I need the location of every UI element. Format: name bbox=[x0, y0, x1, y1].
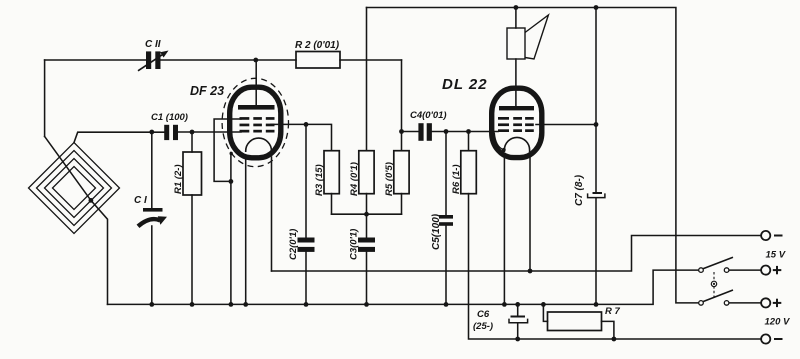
svg-text:15 V: 15 V bbox=[766, 249, 786, 260]
capacitor C4 bbox=[418, 123, 432, 141]
tube DL22 envelope bbox=[492, 88, 542, 157]
svg-text:R5 (0'5): R5 (0'5) bbox=[384, 162, 395, 196]
wire R1 top lead bbox=[191, 132, 193, 152]
terminal 120V plus bbox=[761, 298, 770, 307]
wire speaker to DL22 anode bbox=[515, 59, 517, 106]
wire DF23 filament right leg bbox=[271, 157, 273, 271]
wire DF23 anode lead bbox=[255, 60, 257, 105]
tube DL22 grid3-filament link bbox=[494, 133, 504, 150]
svg-text:R 2 (0'01): R 2 (0'01) bbox=[295, 40, 340, 51]
label minus 120V bbox=[774, 338, 783, 340]
node screen C2 bbox=[304, 122, 309, 127]
wire DL22 filament right leg bbox=[529, 156, 531, 271]
label plus 120V bbox=[773, 299, 782, 307]
wire DF23 coating ground bbox=[230, 153, 232, 305]
wire C7 bottom bbox=[595, 198, 597, 304]
switch S1 bbox=[699, 257, 733, 272]
tube DF23 filament bbox=[246, 138, 272, 152]
node rail C7 bbox=[594, 302, 599, 307]
tube DF23 envelope bbox=[230, 87, 281, 158]
node DL22 filament heater bbox=[528, 269, 533, 274]
loop antenna L1 bbox=[29, 143, 120, 234]
resistor R7 bbox=[548, 312, 602, 331]
tube DL22 anode bar bbox=[499, 106, 534, 110]
terminal 15V minus bbox=[761, 231, 770, 240]
node C4 R5 bbox=[399, 129, 404, 134]
wire antenna inner tap diagonal bbox=[45, 136, 108, 304]
wire DF23 filament left leg bbox=[245, 157, 247, 304]
switch mechanical link bbox=[711, 272, 716, 300]
node decoupling C3 bbox=[364, 212, 369, 217]
capacitor C6 (electrolytic) bbox=[509, 316, 528, 323]
svg-text:DL 22: DL 22 bbox=[442, 76, 488, 93]
svg-text:C3(0'1): C3(0'1) bbox=[349, 229, 360, 260]
node rail R1 bbox=[190, 302, 195, 307]
svg-text:R 7: R 7 bbox=[605, 306, 621, 317]
terminal 15V plus bbox=[761, 266, 770, 275]
node rail C5 bbox=[444, 302, 449, 307]
tube DF23 anode bar bbox=[238, 105, 275, 110]
resistor R6 bbox=[461, 151, 477, 194]
node antenna inner tap bbox=[89, 198, 94, 203]
node rail CI bbox=[149, 302, 154, 307]
capacitor C5 bbox=[439, 215, 453, 226]
wire R1 bottom lead bbox=[191, 195, 193, 304]
node rail DF23 filament bbox=[243, 302, 248, 307]
terminal 120V minus bbox=[761, 334, 770, 343]
svg-text:C II: C II bbox=[145, 39, 161, 50]
resistor R4 bbox=[359, 151, 374, 194]
wire DL22 filament left leg bbox=[503, 156, 505, 304]
node B+ screen branch bbox=[594, 5, 599, 10]
node rail DL22 filament bbox=[502, 302, 507, 307]
wire DL22 screen to B+ bbox=[536, 124, 596, 126]
tube DF23 grid dashes bbox=[240, 117, 275, 132]
wire CI branch bottom bbox=[151, 226, 153, 304]
wire 15V plus to terminal bbox=[729, 269, 761, 271]
wire ground rail bbox=[108, 270, 699, 304]
wire DF23 grid1 loop bbox=[214, 119, 241, 181]
wire speaker top lead bbox=[515, 8, 517, 29]
wire B+ down through R4 position bbox=[366, 8, 368, 151]
svg-text:R6 (1-): R6 (1-) bbox=[451, 164, 462, 194]
svg-text:R4 (0'1): R4 (0'1) bbox=[349, 162, 360, 196]
wire R6 top lead bbox=[468, 132, 470, 151]
wire R6 bottom to 120V minus line bbox=[469, 194, 762, 339]
wire B+ top rail bbox=[367, 8, 699, 303]
svg-text:DF 23: DF 23 bbox=[190, 84, 224, 98]
capacitor CI (variable) bbox=[138, 208, 167, 226]
wire R5 bottom lead bbox=[401, 194, 403, 215]
wire CI branch top bbox=[151, 132, 153, 208]
wire C2 branch top bbox=[305, 124, 307, 237]
wire R7 left lead bbox=[543, 304, 547, 321]
node rail C6 bbox=[515, 302, 520, 307]
svg-text:R1 (2-): R1 (2-) bbox=[173, 164, 184, 194]
wire C5 branch top bbox=[445, 132, 447, 215]
wire 120V plus to terminal bbox=[729, 302, 761, 304]
wire B+ vertical to C7 bbox=[595, 8, 597, 193]
wire R3 bottom lead bbox=[331, 194, 333, 215]
node bottom C6 bbox=[515, 337, 520, 342]
capacitor C7 (electrolytic) bbox=[588, 192, 605, 198]
wire C4 to DL22 grid bbox=[432, 131, 498, 133]
capacitor C1 bbox=[164, 125, 178, 140]
svg-text:120 V: 120 V bbox=[765, 317, 790, 328]
wire CII right to R2 bbox=[161, 59, 297, 61]
node rail C2 bbox=[304, 302, 309, 307]
node rail C3 bbox=[364, 302, 369, 307]
speaker LS bbox=[507, 15, 548, 59]
node grid1 corner bbox=[229, 179, 234, 184]
node rail R7 bbox=[541, 302, 546, 307]
label plus 15V bbox=[773, 266, 782, 274]
wire C3 bottom bbox=[366, 252, 368, 304]
wire C2 branch bottom bbox=[305, 252, 307, 304]
svg-text:C5(100): C5(100) bbox=[431, 213, 442, 250]
node DF23 anode / CII / R2 bbox=[253, 58, 258, 63]
node rail coating bbox=[229, 302, 234, 307]
svg-text:C1 (100): C1 (100) bbox=[151, 112, 188, 123]
wire node to C4 bbox=[402, 131, 419, 133]
node C5 tap bbox=[444, 129, 449, 134]
tube DF23 metal coating (dashed) bbox=[222, 78, 288, 166]
tube DL22 grid dashes bbox=[498, 117, 534, 132]
resistor R5 bbox=[394, 151, 409, 194]
node bottom R7 bbox=[612, 337, 617, 342]
wire antenna outer tap bbox=[74, 132, 164, 142]
capacitor C2 bbox=[298, 238, 315, 252]
tube DL22 filament bbox=[504, 137, 529, 152]
wire C1 to DF23 grid bbox=[178, 131, 241, 133]
node DL22 screen B+ bbox=[594, 122, 599, 127]
wire R7 right lead bbox=[602, 321, 614, 339]
wire C6 bottom lead bbox=[517, 323, 519, 339]
switch S2 bbox=[699, 290, 733, 305]
svg-text:(25-): (25-) bbox=[473, 321, 493, 332]
node R1 tap bbox=[190, 130, 195, 135]
wire down to C4 node bbox=[401, 60, 403, 132]
svg-text:C4(0'01): C4(0'01) bbox=[410, 110, 447, 121]
node R6 tap bbox=[466, 129, 471, 134]
wire C6 top lead bbox=[517, 304, 519, 315]
node CI tap bbox=[149, 130, 154, 135]
capacitor C3 bbox=[358, 238, 375, 252]
wire decoupling node bbox=[332, 213, 402, 215]
svg-text:C2(0'1): C2(0'1) bbox=[288, 229, 299, 260]
wire R5 top lead bbox=[401, 132, 403, 151]
svg-text:C I: C I bbox=[134, 195, 147, 206]
wire DF23 screen to R3 bbox=[271, 124, 332, 150]
node speaker B+ bbox=[514, 5, 519, 10]
svg-text:C7 (8-): C7 (8-) bbox=[574, 174, 585, 206]
wire R4 bottom to C3 bbox=[366, 194, 368, 238]
node DL22 grid3 filament bbox=[502, 148, 506, 152]
svg-text:R3 (15): R3 (15) bbox=[314, 164, 325, 196]
wire CII left feedback wire bbox=[45, 59, 146, 61]
svg-text:C6: C6 bbox=[477, 309, 490, 320]
wire left drop from CII bbox=[44, 60, 46, 136]
resistor R2 bbox=[296, 52, 340, 69]
node coating touch bbox=[230, 152, 233, 155]
wire C5 branch bottom bbox=[445, 226, 447, 305]
wire heater line to 15V minus bbox=[272, 236, 762, 272]
wire R2 output to corner bbox=[340, 59, 402, 61]
resistor R1 bbox=[183, 152, 202, 195]
resistor R3 bbox=[324, 151, 339, 194]
capacitor CII (variable) bbox=[138, 51, 169, 71]
label minus 15V bbox=[774, 235, 783, 237]
